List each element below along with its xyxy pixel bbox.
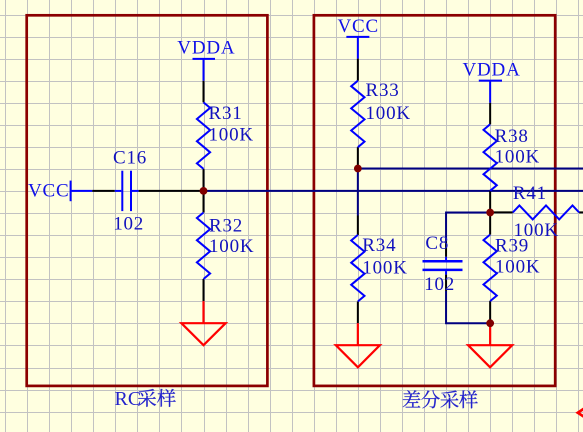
resistor R31 body xyxy=(197,102,210,168)
wire junction to C8 top xyxy=(446,213,490,240)
pin C8 top xyxy=(445,240,447,257)
pin R32 bottom xyxy=(203,279,205,301)
sheet box RC sampling xyxy=(27,15,268,386)
ground (under R39/C8) xyxy=(468,323,512,367)
wire net2 horizontal from R33 junction xyxy=(358,168,583,170)
pin R41 left xyxy=(490,211,513,213)
pin R38 top xyxy=(489,103,491,125)
capacitor C8 plates xyxy=(423,257,463,275)
pin R39 bottom xyxy=(489,301,491,323)
pin R33 bottom xyxy=(357,147,359,168)
pin R34 top xyxy=(357,216,359,235)
svg-text:R32: R32 xyxy=(209,215,243,236)
junction node1 xyxy=(200,187,208,195)
svg-text:VCC: VCC xyxy=(338,16,379,37)
svg-text:VDDA: VDDA xyxy=(177,38,235,59)
pin R31 top xyxy=(203,81,205,103)
svg-text:R34: R34 xyxy=(362,235,396,256)
ground partial at bottom-right edge xyxy=(578,409,583,417)
pin C8 bottom xyxy=(445,275,447,291)
junction node2 xyxy=(354,165,362,173)
wire C8 bottom to junction xyxy=(446,291,490,323)
svg-text:100K: 100K xyxy=(209,236,254,257)
junction node4 xyxy=(486,319,494,327)
ground (under R34) xyxy=(336,323,380,367)
resistor R32 body xyxy=(197,213,210,280)
svg-text:100K: 100K xyxy=(495,257,540,278)
svg-text:100K: 100K xyxy=(209,125,254,146)
svg-text:R33: R33 xyxy=(366,80,400,101)
wire net1 main horizontal xyxy=(204,190,583,192)
power port VDDA (left box) xyxy=(193,59,216,81)
pin C16 right / wire to junction xyxy=(139,190,204,192)
resistor R38 body xyxy=(484,124,497,191)
pin R31 bottom xyxy=(203,169,205,191)
pin R34 bottom xyxy=(357,301,359,323)
pin R33 top xyxy=(357,59,359,81)
resistor R33 body xyxy=(351,81,364,148)
svg-text:100K: 100K xyxy=(362,257,407,278)
svg-text:C8: C8 xyxy=(425,233,449,254)
svg-text:R31: R31 xyxy=(209,103,243,124)
svg-text:C16: C16 xyxy=(113,148,147,169)
caption differential sampling (chafen caiyang) xyxy=(403,390,421,407)
power port VDDA (right box) xyxy=(479,81,502,103)
pin R39 top xyxy=(489,213,491,235)
capacitor C16 plates xyxy=(115,171,139,211)
junction node3 xyxy=(486,209,494,217)
pin R38 bottom xyxy=(489,191,491,213)
power port VCC (right box) xyxy=(346,37,369,59)
svg-text:100K: 100K xyxy=(495,146,540,167)
pin C16 left xyxy=(92,190,115,192)
svg-text:RC: RC xyxy=(115,388,142,410)
resistor R39 body xyxy=(484,235,497,302)
svg-text:102: 102 xyxy=(113,213,144,234)
svg-text:100K: 100K xyxy=(366,103,411,124)
ground (left box) xyxy=(181,301,225,345)
sheet box differential sampling xyxy=(314,15,555,386)
power port VCC (left box) xyxy=(71,181,93,202)
svg-text:R38: R38 xyxy=(495,126,529,147)
svg-text:102: 102 xyxy=(424,274,455,295)
resistor R34 body xyxy=(351,235,364,302)
svg-text:VCC: VCC xyxy=(28,181,69,202)
svg-text:R41: R41 xyxy=(513,183,547,204)
wire R33 junction down to R34 xyxy=(357,169,359,216)
pin R41 right xyxy=(579,211,583,213)
svg-text:R39: R39 xyxy=(495,236,529,257)
resistor R41 body xyxy=(513,205,579,219)
pin R32 top xyxy=(203,191,205,213)
svg-text:VDDA: VDDA xyxy=(463,60,521,81)
